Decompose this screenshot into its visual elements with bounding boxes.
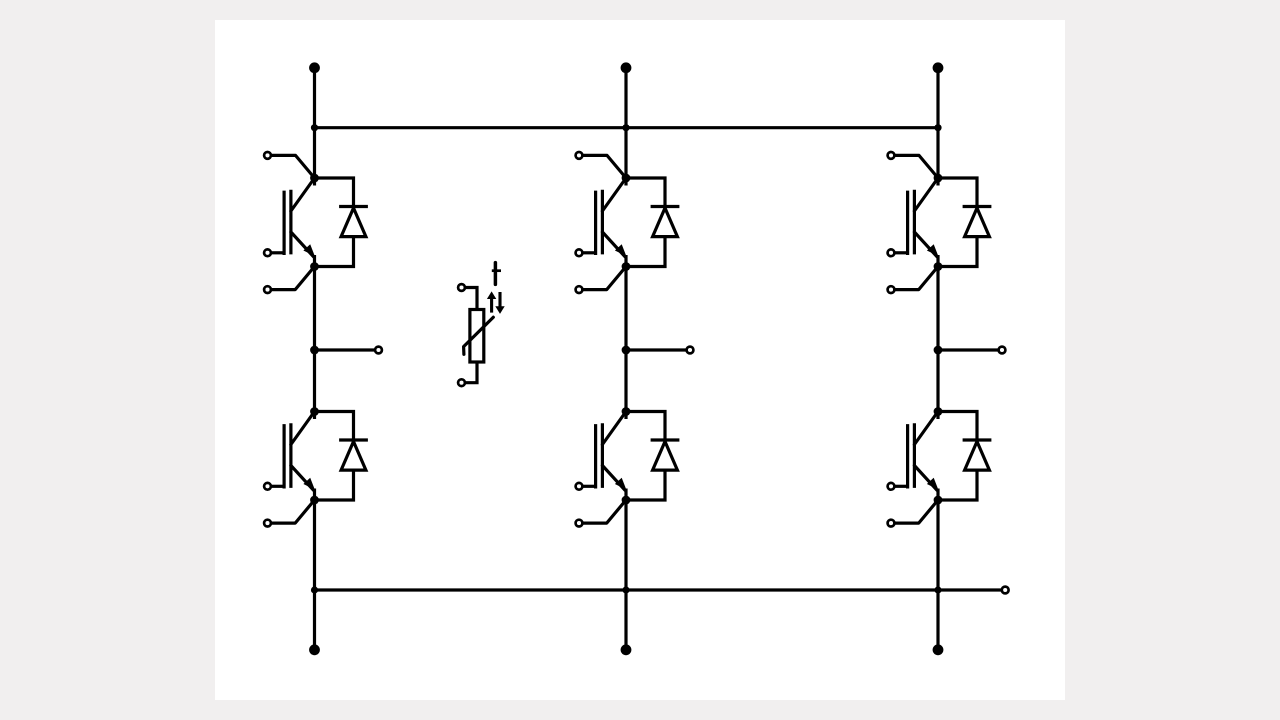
transistor Q2 (IGBT): [284, 412, 315, 501]
collector node of Q3 (junction dot): [622, 174, 631, 183]
wire: collector sense terminal to collector node of Q3: [582, 155, 626, 178]
temperature down arrow: [495, 292, 504, 314]
node: DC+ rail junction leg 2: [622, 124, 629, 131]
gate terminal of Q1 (open circle): [264, 249, 271, 256]
collector node of Q5 (junction dot): [934, 174, 943, 183]
node: phase output W junction dot: [934, 346, 943, 355]
thermistor R1 (NTC) body: [470, 310, 484, 363]
NTC thermistor terminal 2 (open circle): [458, 379, 465, 386]
node: DC- rail junction leg 2: [622, 586, 629, 593]
NTC thermistor terminal 1 (open circle): [458, 284, 465, 291]
wire: phase output U stub: [315, 348, 376, 351]
gate terminal of Q4 (open circle): [576, 483, 583, 490]
wire: freewheeling-diode branch of D2: [315, 412, 354, 501]
wire: gate terminal to gate bar of Q3: [582, 251, 596, 254]
wire: emitter of Q4 to DC- terminal: [624, 500, 627, 650]
node: DC- rail junction leg 1: [311, 586, 318, 593]
diode D6: [963, 440, 992, 470]
wire: thermistor R1 to NTC terminal 2: [465, 362, 477, 383]
wire: emitter of Q5 to collector of Q6: [936, 267, 939, 412]
thermistor R1 NTC slash with foot: [464, 317, 494, 354]
wire: phase output W stub: [938, 348, 999, 351]
auxiliary emitter terminal of Q6 (open circle): [888, 520, 895, 527]
phase output terminal U (open circle): [375, 347, 382, 354]
transistor Q6 (IGBT): [908, 412, 939, 501]
node: DC+ rail junction leg 1: [311, 124, 318, 131]
node: phase output U junction dot: [310, 346, 319, 355]
wire: gate terminal to gate bar of Q2: [271, 485, 285, 488]
phase output terminal V (open circle): [687, 347, 694, 354]
collector sense terminal of Q1 (open circle): [264, 152, 271, 159]
wire: freewheeling-diode branch of D3: [626, 178, 665, 267]
auxiliary emitter terminal of Q4 (open circle): [576, 520, 583, 527]
wire: freewheeling-diode branch of D4: [626, 412, 665, 501]
phase output terminal W (open circle): [999, 347, 1006, 354]
wire: DC+ terminal to collector node of Q5: [936, 68, 939, 178]
node: DC- rail junction leg 3: [934, 586, 941, 593]
DC+ terminal dot, phase leg 2: [621, 62, 632, 73]
collector sense terminal of Q3 (open circle): [576, 152, 583, 159]
wire: gate terminal to gate bar of Q5: [894, 251, 908, 254]
wire: gate terminal to gate bar of Q1: [271, 251, 285, 254]
wire: emitter of Q3 to collector of Q4: [624, 267, 627, 412]
collector node of Q2 (junction dot): [310, 407, 319, 416]
DC- sense terminal (open circle, right end of DC- rail): [1002, 587, 1009, 594]
collector node of Q1 (junction dot): [310, 174, 319, 183]
DC+ terminal dot, phase leg 1: [309, 62, 320, 73]
emitter node of Q5 (junction dot): [934, 262, 943, 271]
wire: emitter of Q2 to DC- terminal: [313, 500, 316, 650]
collector node of Q6 (junction dot): [934, 407, 943, 416]
wire: collector sense terminal to collector node of Q1: [271, 155, 315, 178]
gate terminal of Q5 (open circle): [888, 249, 895, 256]
wire: freewheeling-diode branch of D5: [938, 178, 977, 267]
collector node of Q4 (junction dot): [622, 407, 631, 416]
auxiliary emitter terminal of Q5 (open circle): [888, 286, 895, 293]
wire: auxiliary emitter terminal to emitter node of Q6: [894, 500, 938, 523]
wire: collector sense terminal to collector node of Q5: [894, 155, 938, 178]
DC+ terminal dot, phase leg 3: [933, 62, 944, 73]
wire: DC+ terminal to collector node of Q1: [313, 68, 316, 178]
transistor Q5 (IGBT): [908, 178, 939, 267]
white drawing sheet: [215, 20, 1065, 700]
wire: DC- bus rail: [315, 588, 1002, 591]
transistor Q3 (IGBT): [596, 178, 627, 267]
wire: freewheeling-diode branch of D6: [938, 412, 977, 501]
auxiliary emitter terminal of Q2 (open circle): [264, 520, 271, 527]
node: DC+ rail junction leg 3: [934, 124, 941, 131]
wire: emitter of Q1 to collector of Q2: [313, 267, 316, 412]
emitter node of Q2 (junction dot): [310, 496, 319, 505]
emitter node of Q6 (junction dot): [934, 496, 943, 505]
wire: NTC terminal 1 to thermistor R1: [465, 288, 477, 310]
gate terminal of Q3 (open circle): [576, 249, 583, 256]
diode D5: [963, 207, 992, 237]
gate terminal of Q6 (open circle): [888, 483, 895, 490]
wire: DC+ terminal to collector node of Q3: [624, 68, 627, 178]
DC- terminal dot, phase leg 2: [621, 644, 632, 655]
transistor Q4 (IGBT): [596, 412, 627, 501]
emitter node of Q4 (junction dot): [622, 496, 631, 505]
label t (temperature) glyph: [492, 263, 501, 285]
wire: gate terminal to gate bar of Q6: [894, 485, 908, 488]
wire: auxiliary emitter terminal to emitter node of Q4: [582, 500, 626, 523]
wire: DC+ bus rail: [315, 126, 939, 129]
wire: emitter of Q6 to DC- terminal: [936, 500, 939, 650]
wire: phase output V stub: [626, 348, 687, 351]
diode D3: [651, 207, 680, 237]
wire: auxiliary emitter terminal to emitter node of Q2: [271, 500, 315, 523]
diode D2: [339, 440, 368, 470]
diode D4: [651, 440, 680, 470]
wire: auxiliary emitter terminal to emitter node of Q3: [582, 267, 626, 290]
transistor Q1 (IGBT): [284, 178, 315, 267]
temperature up arrow: [487, 291, 496, 312]
gate terminal of Q2 (open circle): [264, 483, 271, 490]
DC- terminal dot, phase leg 1: [309, 644, 320, 655]
wire: gate terminal to gate bar of Q4: [582, 485, 596, 488]
auxiliary emitter terminal of Q3 (open circle): [576, 286, 583, 293]
collector sense terminal of Q5 (open circle): [888, 152, 895, 159]
wire: freewheeling-diode branch of D1: [315, 178, 354, 267]
emitter node of Q1 (junction dot): [310, 262, 319, 271]
DC- terminal dot, phase leg 3: [933, 644, 944, 655]
emitter node of Q3 (junction dot): [622, 262, 631, 271]
wire: auxiliary emitter terminal to emitter node of Q5: [894, 267, 938, 290]
diode D1: [339, 207, 368, 237]
node: phase output V junction dot: [622, 346, 631, 355]
wire: auxiliary emitter terminal to emitter node of Q1: [271, 267, 315, 290]
auxiliary emitter terminal of Q1 (open circle): [264, 286, 271, 293]
